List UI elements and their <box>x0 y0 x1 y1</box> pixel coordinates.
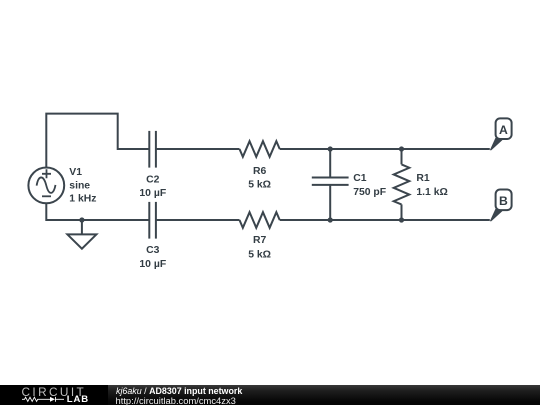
svg-text:5 kΩ: 5 kΩ <box>248 249 271 260</box>
svg-text:10 µF: 10 µF <box>139 259 166 270</box>
ground symbol <box>67 220 96 249</box>
resistor R7 <box>240 212 280 228</box>
resistor R6 <box>240 141 280 157</box>
svg-text:C2: C2 <box>146 175 160 186</box>
svg-text:1 kHz: 1 kHz <box>69 194 96 205</box>
wire R6 to node A (top rail) <box>280 148 490 150</box>
footer title text <box>116 387 242 396</box>
CircuitLab logo <box>0 385 108 405</box>
capacitor C3 <box>149 202 156 239</box>
svg-text:C3: C3 <box>146 245 160 256</box>
wire top-left from V1 plus terminal to C2 left plate <box>46 114 149 168</box>
svg-text:1.1 kΩ: 1.1 kΩ <box>416 187 447 198</box>
node A terminal flag <box>490 118 512 150</box>
svg-text:sine: sine <box>69 180 90 191</box>
node B terminal flag <box>490 190 512 222</box>
wire C3 right plate to R7 <box>156 219 240 221</box>
footer url text <box>116 396 236 405</box>
svg-text:C1: C1 <box>353 173 367 184</box>
wire bottom-left from V1 minus terminal to C3 left plate <box>46 203 149 220</box>
svg-text:R7: R7 <box>253 235 267 246</box>
R1 value label: R1 / 1.1 kΩ <box>416 173 447 198</box>
R7 value label: R7 / 5 kΩ <box>248 235 271 260</box>
svg-text:750 pF: 750 pF <box>353 187 386 198</box>
C3 value label: C3 / 10 µF <box>139 245 166 270</box>
svg-text:5 kΩ: 5 kΩ <box>248 179 271 190</box>
footer bar <box>0 385 540 405</box>
V1 value label: V1 / sine / 1 kHz <box>69 167 96 205</box>
voltage source V1 <box>28 168 64 204</box>
C2 value label: C2 / 10 µF <box>139 175 166 199</box>
svg-text:R6: R6 <box>253 166 267 177</box>
capacitor C1 <box>312 149 349 220</box>
C1 value label: C1 / 750 pF <box>353 173 386 198</box>
junction dot top rail / R1 <box>399 146 404 151</box>
svg-text:LAB: LAB <box>67 394 89 405</box>
R6 value label: R6 / 5 kΩ <box>248 166 271 190</box>
svg-text:A: A <box>499 123 508 137</box>
junction dot bottom rail / R1 <box>399 217 404 222</box>
svg-text:R1: R1 <box>416 173 430 184</box>
wire C2 right plate to R6 <box>156 148 240 150</box>
capacitor C2 <box>149 131 156 168</box>
svg-text:B: B <box>499 194 508 208</box>
svg-text:V1: V1 <box>69 167 82 178</box>
junction dot at ground tap <box>79 217 84 222</box>
wire R7 to node B (bottom rail) <box>280 219 490 221</box>
junction dot top rail / C1 <box>328 146 333 151</box>
svg-text:10 µF: 10 µF <box>139 188 166 199</box>
junction dot bottom rail / C1 <box>328 217 333 222</box>
resistor R1 <box>394 149 410 220</box>
